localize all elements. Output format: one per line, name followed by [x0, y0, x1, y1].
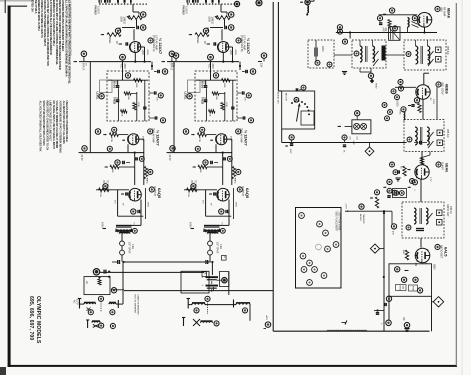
svg-text:-8V: -8V — [429, 97, 431, 101]
tone box terminal chA — [125, 73, 130, 78]
svg-text:(FM): (FM) — [440, 7, 443, 12]
svg-text:6BE6: 6BE6 — [444, 84, 449, 94]
conv volt labels — [429, 97, 434, 105]
bus2 wire chA — [82, 152, 144, 186]
resistor R8A — [133, 102, 139, 110]
bus2 wire chB — [170, 152, 232, 186]
eq box chA — [96, 80, 113, 100]
tone feed wire chB — [210, 62, 212, 81]
svg-text:6AL5: 6AL5 — [443, 247, 448, 257]
grid resistor R2A 1MEG — [115, 28, 120, 34]
conv top wire — [424, 73, 429, 85]
resistor R7B — [212, 92, 225, 100]
ratio det tube V13 6AL5 — [415, 248, 430, 263]
treble resistor R5B — [222, 79, 231, 89]
B+ rail vertical — [272, 2, 274, 331]
svg-text:EXT SPKR: EXT SPKR — [128, 242, 130, 254]
117V label — [73, 299, 79, 305]
filament winding L1 — [84, 302, 96, 311]
svg-text:TAKEOFF: TAKEOFF — [362, 214, 365, 225]
svg-text:1ST AF AMP: 1ST AF AMP — [243, 35, 247, 51]
voice coil terminal chB — [220, 228, 225, 233]
cathode rail chA — [114, 190, 144, 216]
box left drop — [388, 296, 390, 320]
electrolytic C30B — [202, 283, 219, 289]
power transformer box — [181, 271, 209, 293]
function switch S1 — [282, 91, 315, 129]
tone out cap2 chB — [237, 116, 254, 122]
RF osc terminal a — [377, 16, 382, 25]
IF volt labels — [407, 169, 431, 182]
terminal 24 — [342, 39, 347, 44]
svg-text:50K: 50K — [204, 81, 207, 86]
top edge smudge — [0, 0, 34, 2]
heat diamond — [365, 143, 374, 156]
det coupling — [391, 211, 396, 235]
boxed A label — [222, 256, 227, 261]
IF bypass cap C47 — [395, 170, 400, 181]
filament winding L2 — [109, 302, 116, 304]
dial crossover B — [182, 318, 200, 327]
input jack strip JA — [99, 0, 132, 4]
filter capacitor C30 plates — [206, 260, 214, 264]
svg-text:47K: 47K — [392, 231, 394, 235]
svg-text:250K: 250K — [123, 64, 125, 70]
wire A input drop — [133, 4, 139, 14]
svg-text:ROUTE SPEAKER: ROUTE SPEAKER — [134, 295, 137, 314]
ratio det transformer T13 — [402, 202, 444, 238]
tone control network box chA — [107, 71, 149, 121]
top wire to bus — [213, 287, 215, 291]
bus2 terminal b chA — [107, 146, 112, 151]
svg-text:+: + — [202, 283, 204, 287]
line bracket A right — [117, 300, 119, 308]
filter cap drop — [211, 262, 213, 275]
switch ground leg — [285, 135, 294, 154]
bus2 terminal chB — [167, 146, 176, 161]
output pentode V2 chB 6AQ5 — [217, 188, 230, 201]
tone mid wire2 chA — [136, 92, 138, 121]
grid wire out chA — [96, 189, 129, 191]
service notes text block 2 — [39, 101, 69, 154]
right page-edge line — [462, 0, 463, 375]
terminal 5 chB — [183, 129, 189, 135]
bottom-left corner mark — [0, 367, 6, 375]
svg-text:455 KC: 455 KC — [446, 129, 450, 138]
speaker label chB — [216, 242, 221, 254]
tone right wire chB — [231, 80, 234, 121]
svg-text:265V: 265V — [433, 264, 436, 270]
pilot lamp PL2 — [361, 123, 367, 129]
feedback resistor R13B — [193, 165, 223, 173]
terminal 5 chA — [95, 129, 101, 135]
treble label chB — [201, 97, 207, 104]
svg-text:½ 12AX7: ½ 12AX7 — [246, 38, 251, 55]
svg-text:(FM) CONV: (FM) CONV — [441, 82, 444, 95]
svg-text:455 KC: 455 KC — [446, 46, 450, 55]
triode V1B chA 1/2 12AX7 — [122, 134, 139, 145]
1st AM IF transformer T11 — [404, 40, 446, 70]
converter tube V11 6BE6 — [416, 85, 430, 120]
tone out cap chA — [149, 91, 163, 101]
dial lamp terminal A — [99, 323, 116, 329]
screen wire chB — [234, 188, 237, 219]
svg-text:180V: 180V — [235, 202, 237, 207]
IF cathode strip box — [393, 189, 407, 198]
model title text — [28, 296, 41, 344]
de-emphasis network — [374, 309, 384, 314]
svg-text:AM: AM — [384, 28, 387, 32]
grid terminal chB — [200, 127, 205, 132]
svg-text:22V: 22V — [244, 97, 246, 101]
svg-text:1ST AF AMP: 1ST AF AMP — [155, 35, 159, 51]
svg-text:1MEG: 1MEG — [196, 37, 199, 44]
FM det trap box — [308, 40, 334, 68]
svg-text:½ 12AX7: ½ 12AX7 — [156, 130, 161, 146]
svg-text:33K: 33K — [111, 169, 113, 173]
coupling cap C12B — [224, 156, 233, 161]
output transformer TB — [204, 222, 223, 234]
speaker label chA — [128, 242, 133, 254]
svg-text:OUTPUT: OUTPUT — [153, 186, 156, 197]
svg-text:2200: 2200 — [321, 46, 324, 52]
svg-text:2V: 2V — [115, 41, 117, 44]
svg-text:AC: AC — [85, 281, 88, 285]
1st FM IF transformer T10 — [352, 40, 386, 68]
svg-text:LEADS IN BRACKET: LEADS IN BRACKET — [136, 295, 139, 317]
avc terminals — [387, 188, 397, 197]
plate wire chA — [132, 200, 142, 226]
dial lamp terminal B — [214, 321, 219, 326]
B power row bracket — [187, 299, 191, 309]
pilot feed terminal — [355, 111, 360, 120]
wire chA to tone box — [151, 62, 153, 70]
resistor R9A — [121, 110, 128, 117]
svg-text:2V: 2V — [203, 41, 205, 44]
output diamond G — [433, 297, 443, 307]
svg-text:LEVEL: LEVEL — [184, 92, 187, 101]
svg-text:2ND AF AMP: 2ND AF AMP — [152, 128, 155, 143]
filament drop wire A — [122, 262, 124, 304]
svg-text:1MEG: 1MEG — [108, 37, 111, 44]
plate resistor R3A — [141, 47, 148, 62]
takeoff terminal t1 — [395, 267, 400, 272]
triode V1A chA 1/2 12AX7 — [130, 42, 141, 53]
output transformer TA — [116, 222, 135, 234]
bus-right terminal chB — [258, 53, 267, 68]
IF cathode terminal a — [394, 191, 399, 196]
plate resistor R3B — [229, 47, 236, 62]
IF link wires — [334, 54, 404, 56]
border right line — [455, 3, 457, 366]
top terminal mid — [234, 1, 239, 6]
wire A wiper — [122, 20, 137, 28]
feedback coil chB — [232, 167, 241, 184]
tone top rail chB — [196, 79, 236, 81]
stage label chB — [236, 35, 251, 55]
svg-text:+4.7V: +4.7V — [345, 203, 347, 209]
grid cap C11B — [209, 192, 215, 195]
conv grid terminal 2 — [398, 86, 403, 91]
input bus wire chB — [167, 53, 239, 63]
can link wire — [342, 68, 371, 75]
volume control R1B 1MEG — [208, 16, 231, 24]
svg-text:HEAT: HEAT — [375, 83, 378, 89]
conv cath terminal — [414, 98, 419, 103]
bypass cap C9B — [203, 160, 218, 165]
wire chB to tone box — [239, 62, 241, 70]
feedback coil chA — [144, 167, 153, 184]
svg-text:AC: AC — [73, 300, 76, 304]
antenna coil L9 — [307, 6, 308, 14]
filament row wire B — [188, 304, 236, 306]
svg-text:3.2Ω: 3.2Ω — [219, 244, 221, 249]
terminal 4 chA — [162, 69, 168, 75]
svg-text:2ND AF AMP: 2ND AF AMP — [240, 128, 243, 143]
AVC drop — [349, 33, 351, 39]
function diamond F — [370, 244, 384, 253]
plate volt label chB — [189, 222, 195, 229]
T11 freq label — [428, 46, 450, 66]
boxed B label — [202, 272, 207, 277]
T12 terminal — [407, 137, 412, 142]
svg-text:ANT: ANT — [381, 28, 384, 33]
filter choke wire — [206, 261, 212, 263]
svg-text:105V: 105V — [289, 149, 291, 154]
svg-text:180V: 180V — [147, 202, 149, 207]
svg-text:400Ω: 400Ω — [234, 50, 236, 56]
input terminal chB — [162, 51, 175, 71]
terminal 1 chB — [228, 12, 234, 18]
decoupling cap C4B — [242, 70, 247, 73]
cathode bypass C2B — [203, 41, 216, 46]
IF grid resistor R45 — [400, 166, 407, 176]
am out terminal — [402, 317, 410, 332]
svg-text:OSC: OSC — [399, 110, 401, 115]
svg-text:OUTPUT: OUTPUT — [241, 186, 244, 197]
AM loop antenna — [381, 27, 400, 41]
svg-text:100V: 100V — [229, 50, 231, 56]
svg-text:500K: 500K — [120, 17, 123, 23]
svg-text:6AQ5: 6AQ5 — [245, 188, 250, 199]
antenna terminal — [300, 0, 314, 5]
conv grid terminal — [398, 79, 403, 84]
plate wire chB — [220, 200, 230, 226]
svg-text:1MEG: 1MEG — [146, 178, 148, 184]
bypass cap C9A — [115, 160, 130, 165]
divider drop wire chB — [173, 62, 175, 153]
wire A grid to tube — [133, 29, 135, 40]
volume takeoff wire — [345, 210, 392, 212]
det box right wire — [432, 301, 434, 303]
svg-text:ADJUST IN ORDER SHOWN FOR MAX: ADJUST IN ORDER SHOWN FOR MAX OUTPUT — [69, 1, 72, 56]
T10 terminal — [354, 51, 378, 66]
terminal 2 chA — [140, 25, 146, 31]
RF stage label — [435, 6, 451, 18]
cathode bypass C2A — [115, 41, 128, 46]
B row bracket right — [233, 300, 235, 308]
trap terminal b — [327, 62, 332, 67]
IF amp wires — [421, 152, 423, 165]
svg-text:PHONO: PHONO — [94, 6, 97, 15]
filament winding L4 — [192, 303, 205, 305]
AVC rail vertical — [278, 2, 281, 91]
can mount bracket — [220, 272, 229, 296]
pilot terminal B2 — [242, 308, 247, 313]
shielded lead braid — [327, 330, 367, 331]
IF terminals — [390, 162, 415, 183]
terminal 23 — [337, 29, 342, 34]
speaker common wire — [124, 290, 273, 292]
phono label chA — [94, 6, 100, 15]
terminal 1 chA — [140, 12, 146, 18]
coupling cap C12A — [136, 156, 145, 161]
mains capacitor C20 — [112, 260, 125, 264]
B+ wire 2 — [100, 270, 204, 278]
conv left wire — [395, 86, 416, 88]
line bracket A — [78, 299, 82, 309]
treble resistor R5A — [134, 79, 143, 89]
eq box chB — [184, 80, 201, 100]
takeoff terminal t2 — [401, 277, 406, 282]
conv right drop — [436, 87, 438, 119]
svg-text:6.3V: 6.3V — [352, 141, 354, 146]
decoupling cap C4A — [154, 70, 159, 73]
IF screen terminal — [408, 180, 418, 192]
svg-text:400Ω: 400Ω — [146, 50, 148, 56]
IF cathode terminal b — [399, 191, 404, 196]
svg-text:6AQ5: 6AQ5 — [157, 188, 162, 199]
AVC line — [336, 31, 437, 33]
volume pot tap chA — [120, 54, 126, 69]
plate lead chB — [227, 139, 232, 185]
det tube feed — [420, 238, 422, 248]
electrolytic common wire — [211, 281, 213, 292]
center terminal B — [205, 296, 210, 304]
volume control R1A 1MEG — [120, 16, 143, 24]
grid resistor R12B — [187, 188, 198, 197]
svg-text:50K: 50K — [116, 81, 119, 86]
tube placement label — [335, 211, 340, 232]
takeoff arrow — [405, 270, 409, 272]
heater diamond dot — [370, 79, 378, 90]
svg-text:LEVEL: LEVEL — [96, 92, 99, 101]
cathode lead chB — [215, 144, 217, 152]
dial lamp crossover A — [86, 320, 99, 328]
B+ feed wire — [124, 261, 206, 263]
bus-right terminal chA — [170, 53, 179, 68]
coupling capacitor C1B — [225, 26, 227, 29]
conv resistor R44 — [408, 104, 421, 113]
IF amp tube V12 6BA6 — [415, 165, 429, 202]
svg-text:TUBE PLACEMENT: TUBE PLACEMENT — [335, 211, 338, 232]
divider drop wire chA — [89, 62, 91, 153]
takeoff boxed label 2 — [409, 285, 418, 292]
svg-text:270K: 270K — [99, 192, 101, 198]
svg-text:3.2Ω: 3.2Ω — [131, 244, 133, 249]
center tap terminal A — [98, 296, 103, 312]
IF grid feed — [420, 152, 430, 165]
svg-text:455 KC: 455 KC — [449, 206, 452, 214]
capacitor C6A — [116, 100, 119, 102]
svg-text:100V: 100V — [141, 50, 143, 56]
dial winding L3 — [92, 321, 100, 323]
speaker common wire B — [112, 289, 124, 291]
svg-text:33K: 33K — [199, 169, 201, 173]
svg-text:RATIO DET: RATIO DET — [440, 245, 443, 259]
svg-text:13V: 13V — [260, 63, 263, 68]
det resistor R50 — [402, 250, 409, 260]
RF osc resistor — [388, 20, 391, 28]
triode V1A chB 1/2 12AX7 — [218, 42, 229, 53]
plate volt label chA — [101, 222, 107, 229]
electrolytic C30A — [202, 275, 219, 281]
input bus wire chA — [79, 53, 151, 63]
interlock terminal — [111, 288, 116, 293]
screen wire chA — [146, 188, 149, 219]
rectifier terminal — [93, 269, 99, 275]
IF stage label — [436, 162, 448, 172]
grid stopper R10A — [103, 133, 128, 143]
feedback resistor R13A — [105, 165, 135, 173]
wire B grid to tube — [221, 29, 223, 40]
border bottom line — [8, 365, 457, 367]
tone mid wire2 chB — [224, 92, 226, 121]
pilot lamp bracket — [352, 120, 371, 134]
oscillator coil L11 — [408, 16, 419, 33]
svg-text:MOD: MOD — [412, 286, 414, 292]
dial winding L6 — [201, 321, 213, 323]
voice coil terminal chA — [132, 228, 137, 233]
det drop wire — [383, 211, 385, 331]
right drop wire — [431, 296, 433, 331]
svg-text:470K: 470K — [137, 102, 139, 107]
heater tap terminal — [368, 68, 373, 78]
svg-text:240V: 240V — [189, 222, 192, 228]
tone out cap chB — [237, 91, 251, 101]
rail cap C60 — [342, 135, 347, 153]
bass label chA — [113, 81, 119, 88]
cathode rail chB — [202, 190, 232, 216]
can terminal — [217, 278, 228, 283]
T13 terminal — [406, 213, 432, 230]
RF amp tube V10 6BA6 — [417, 12, 432, 32]
svg-text:0.7V: 0.7V — [429, 177, 431, 182]
capacitor C5A — [116, 80, 119, 87]
input terminal chA — [74, 51, 87, 71]
svg-text:68K: 68K — [402, 250, 404, 254]
switch label — [277, 92, 299, 104]
grid cap C11A — [121, 192, 127, 195]
stage label 3 chB — [237, 186, 250, 199]
grid leak R2bA — [101, 33, 121, 44]
speaker jack chA — [120, 232, 125, 255]
svg-text:½ 12AX7: ½ 12AX7 — [244, 130, 249, 146]
tuner note chB — [190, 180, 196, 192]
takeoff terminal t3 — [413, 277, 418, 282]
phono/tuner input dashed line A — [99, 3, 147, 5]
terminal 2 chB — [228, 25, 234, 31]
det out wires — [416, 263, 426, 266]
top dark terminal — [256, 0, 262, 6]
det stage label — [435, 244, 448, 258]
T11 terminal — [406, 52, 411, 57]
svg-text:270K: 270K — [187, 192, 189, 198]
svg-text:PHONO: PHONO — [182, 6, 185, 15]
svg-text:22.5V: 22.5V — [80, 155, 82, 161]
svg-text:470K: 470K — [225, 102, 227, 107]
wire B wiper — [210, 20, 225, 28]
